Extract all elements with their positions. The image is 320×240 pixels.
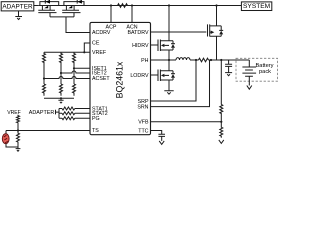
- battery node wire: [209, 59, 250, 61]
- svg-text:ACDRV: ACDRV: [92, 30, 111, 36]
- junction node VFB: [220, 121, 222, 123]
- battery pack dashed enclosure: [236, 58, 278, 81]
- column B lower wire: [60, 73, 62, 84]
- resistor R-STAT2: [62, 112, 75, 115]
- junction node ACSET: [43, 77, 45, 79]
- PH wire: [151, 59, 177, 61]
- svg-text:TTC: TTC: [138, 128, 148, 134]
- TS wire: [6, 130, 90, 132]
- VFB divider upper wire: [220, 60, 222, 105]
- SRP kelvin wire: [151, 60, 197, 101]
- terminal mark: [56, 110, 60, 115]
- thermistor bottom wire: [6, 144, 18, 147]
- common gate bus wire to ACDRV: [50, 17, 90, 33]
- svg-text:ADAPTER: ADAPTER: [29, 110, 55, 116]
- wire STAT1: [59, 108, 90, 110]
- thermistor RT (NTC): [2, 134, 9, 144]
- junction node ISET2: [60, 72, 62, 74]
- svg-text:CE: CE: [92, 41, 100, 47]
- wire PG: [59, 117, 90, 119]
- capacitor C-TTC: [158, 134, 165, 141]
- body diode of Q3: [219, 26, 223, 36]
- body diode loop of Q2: [64, 2, 84, 6]
- junction node SRP: [195, 59, 197, 61]
- input P-FET Q2: [62, 6, 80, 17]
- svg-text:BATDRV: BATDRV: [128, 30, 149, 36]
- resistor R-STAT1: [62, 107, 75, 110]
- junction node at ACP tap: [110, 4, 112, 6]
- svg-text:pack: pack: [259, 69, 271, 75]
- resistor R-ISET2 lower: [60, 84, 63, 96]
- body diode of Q4: [171, 41, 175, 50]
- svg-text:VREF: VREF: [7, 110, 21, 116]
- ACSET wire with hops over columns B and C: [44, 65, 90, 79]
- high side N-FET Q4: [158, 6, 173, 61]
- ground under ADAPTER: [15, 11, 22, 20]
- resistor R-VFB lower: [220, 122, 223, 138]
- svg-text:SYSTEM: SYSTEM: [243, 3, 270, 10]
- junction node ISET1: [73, 67, 75, 69]
- svg-text:LODRV: LODRV: [130, 73, 149, 79]
- junction node at ACN tap: [131, 4, 133, 6]
- junction node system/battery FET: [215, 4, 217, 6]
- junction node HIDRV drain: [168, 4, 170, 6]
- battery cell stack BT1: [242, 60, 256, 86]
- body diode loop of Q1: [40, 2, 59, 6]
- resistor R-ISET2 upper (column B): [60, 52, 63, 64]
- resistor R-ACSET upper (column A): [43, 52, 46, 64]
- column A lower wire: [43, 79, 45, 85]
- VREF rail wire: [44, 51, 90, 53]
- junction node SRN: [210, 59, 212, 61]
- wire L1 to sense resistor: [190, 59, 199, 61]
- junction node CE/VREF: [83, 51, 85, 53]
- ground arrow of TTC: [159, 141, 164, 145]
- ground arrow of battery pack: [247, 86, 252, 90]
- CE tie wire to VREF: [84, 43, 90, 52]
- inductor L1: [176, 58, 190, 60]
- ACN sense wire: [131, 6, 133, 23]
- thermistor branch wire: [5, 131, 7, 134]
- junction node TS: [17, 129, 19, 131]
- ground of output capacitor: [225, 73, 232, 76]
- battery FET gate wire BATDRV: [151, 31, 207, 33]
- resistor RT2 lower: [17, 131, 20, 148]
- TTC wire: [151, 131, 162, 135]
- input current sense resistor RAC: [115, 4, 130, 8]
- svg-text:PH: PH: [141, 58, 149, 64]
- resistor RT1 from VREF: [17, 115, 20, 131]
- resistor R-VFB upper: [220, 105, 223, 122]
- resistor R-ACSET lower: [43, 84, 46, 96]
- VFB wire: [151, 121, 222, 123]
- wire STAT2: [59, 112, 90, 114]
- input P-FET Q1: [38, 6, 56, 17]
- body diode D1: [45, 0, 50, 4]
- low side N-FET Q5: [158, 60, 173, 91]
- ground of ISET dividers: [58, 98, 63, 103]
- svg-text:VFB: VFB: [138, 120, 149, 126]
- ISET1 wire: [74, 65, 90, 69]
- SRN kelvin wire: [151, 60, 210, 107]
- ground of low side FET: [164, 91, 173, 94]
- svg-text:TS: TS: [92, 128, 99, 134]
- ADAPTER source box: [1, 2, 34, 11]
- IC U1 BQ2461x box: [90, 22, 151, 134]
- resistor R-ISET1 lower: [73, 84, 76, 96]
- bottom bus wire of ISET dividers: [44, 97, 74, 99]
- battery P-FET Q3: [208, 6, 222, 61]
- status pull-up bus wire: [58, 109, 60, 119]
- resistor R-PG: [62, 117, 75, 120]
- svg-text:VREF: VREF: [92, 50, 107, 56]
- resistor R-ISET1 upper (column C): [73, 52, 76, 64]
- junction node PH: [168, 59, 170, 61]
- charge current sense resistor RSR: [199, 58, 209, 62]
- junction node ground bus: [60, 97, 62, 99]
- svg-text:PG: PG: [92, 116, 100, 122]
- svg-text:ADAPTER: ADAPTER: [2, 3, 33, 10]
- svg-text:ACSET: ACSET: [92, 76, 110, 82]
- body diode D2: [77, 0, 82, 4]
- low side FET gate wire LODRV: [151, 74, 159, 76]
- ISET2 wire with hop over column C: [61, 65, 90, 74]
- output capacitor C-OUT: [225, 60, 232, 73]
- high side FET gate wire HIDRV: [151, 44, 159, 46]
- wire ADAPTER to input FETs: [34, 5, 39, 7]
- junction node VFB tap: [220, 59, 222, 61]
- body diode of Q5: [171, 71, 175, 80]
- SYSTEM load box: [241, 2, 271, 11]
- svg-text:BQ2461x: BQ2461x: [115, 61, 125, 98]
- ground of TS divider: [16, 147, 21, 151]
- top input rail wire: [38, 5, 241, 7]
- ground arrow of VFB divider: [219, 140, 224, 144]
- svg-text:SRN: SRN: [137, 104, 148, 110]
- column C lower wire: [73, 68, 75, 84]
- svg-text:HIDRV: HIDRV: [132, 43, 149, 49]
- ACP sense wire: [110, 6, 112, 23]
